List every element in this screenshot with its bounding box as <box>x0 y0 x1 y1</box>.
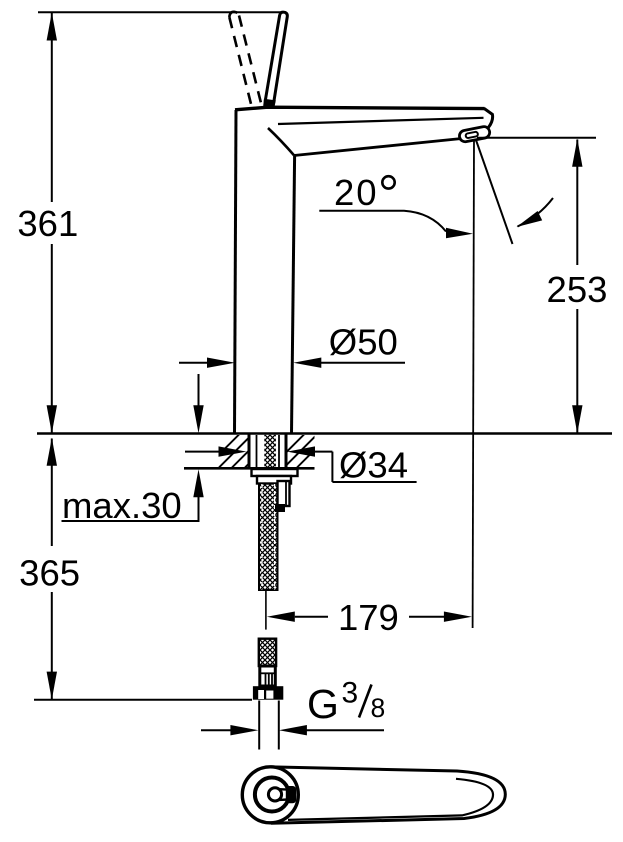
extension line 365 bottom datum <box>34 699 252 701</box>
angle arc 20 degrees <box>518 198 554 227</box>
dimension max.30 <box>62 374 204 526</box>
lever side view (detail drawing) <box>242 767 505 824</box>
lever base joint <box>263 99 276 108</box>
svg-text:Ø50: Ø50 <box>329 322 398 363</box>
mounting tube in counter <box>249 435 286 468</box>
svg-text:G: G <box>307 681 339 727</box>
aerator <box>459 126 491 143</box>
water stream direction line <box>476 140 513 245</box>
svg-text:3: 3 <box>342 677 359 710</box>
extension line spout tip vertical <box>473 139 474 628</box>
svg-text:365: 365 <box>19 553 80 594</box>
lever hub middle circle <box>255 778 289 812</box>
mounting washer <box>252 469 298 476</box>
lever arm outline <box>271 767 505 823</box>
svg-text:8: 8 <box>371 693 386 723</box>
lever hub outer circle <box>242 767 298 823</box>
mounting nut tier <box>257 476 291 484</box>
lever (dashed alternate position) <box>229 12 261 104</box>
counter top line <box>37 432 612 435</box>
dimension diameter 34 <box>185 445 417 486</box>
dimension diameter 50 <box>179 322 405 368</box>
svg-text:max.30: max.30 <box>62 485 182 526</box>
faucet body right edge <box>292 156 295 434</box>
lever arm inner contour <box>288 779 493 820</box>
svg-text:179: 179 <box>338 597 399 638</box>
spout inner top contour <box>278 118 484 124</box>
extension line 253 top datum <box>477 137 596 139</box>
body-to-spout corner curve <box>268 128 294 156</box>
svg-text:20: 20 <box>334 172 379 213</box>
dimension 361 <box>17 13 78 434</box>
counter bottom line <box>184 467 315 470</box>
G3/8 hex nut <box>253 686 283 700</box>
mounting stud tab <box>275 481 290 512</box>
spout bottom edge <box>294 139 461 156</box>
label 20 degrees <box>319 172 473 238</box>
dimension 179 <box>267 597 472 638</box>
lever (solid position) <box>265 12 287 105</box>
lever hub small circle <box>268 788 281 801</box>
svg-text:361: 361 <box>17 203 78 244</box>
lever pin neck <box>279 788 288 791</box>
faucet body top edge <box>235 107 485 110</box>
hose lines below nut <box>258 701 260 750</box>
spout tip bevel and end face <box>484 108 493 127</box>
svg-text:253: 253 <box>547 269 608 310</box>
flexible hose braided section <box>259 639 276 666</box>
lever pin cap <box>286 786 296 803</box>
hose collar fitting <box>260 666 276 686</box>
dimension 365 <box>19 438 80 700</box>
threaded rod <box>259 484 278 591</box>
extension line top (361 upper datum) <box>38 11 286 13</box>
dimension 253 <box>547 139 608 434</box>
label G 3/8 <box>307 677 385 727</box>
dimension hose diameter <box>201 725 384 735</box>
counter cross-section hatching <box>206 433 332 468</box>
faucet body left edge <box>235 110 237 434</box>
svg-text:Ø34: Ø34 <box>339 445 408 486</box>
angle arc arrowhead <box>517 211 543 227</box>
centerline below rod <box>265 591 267 630</box>
